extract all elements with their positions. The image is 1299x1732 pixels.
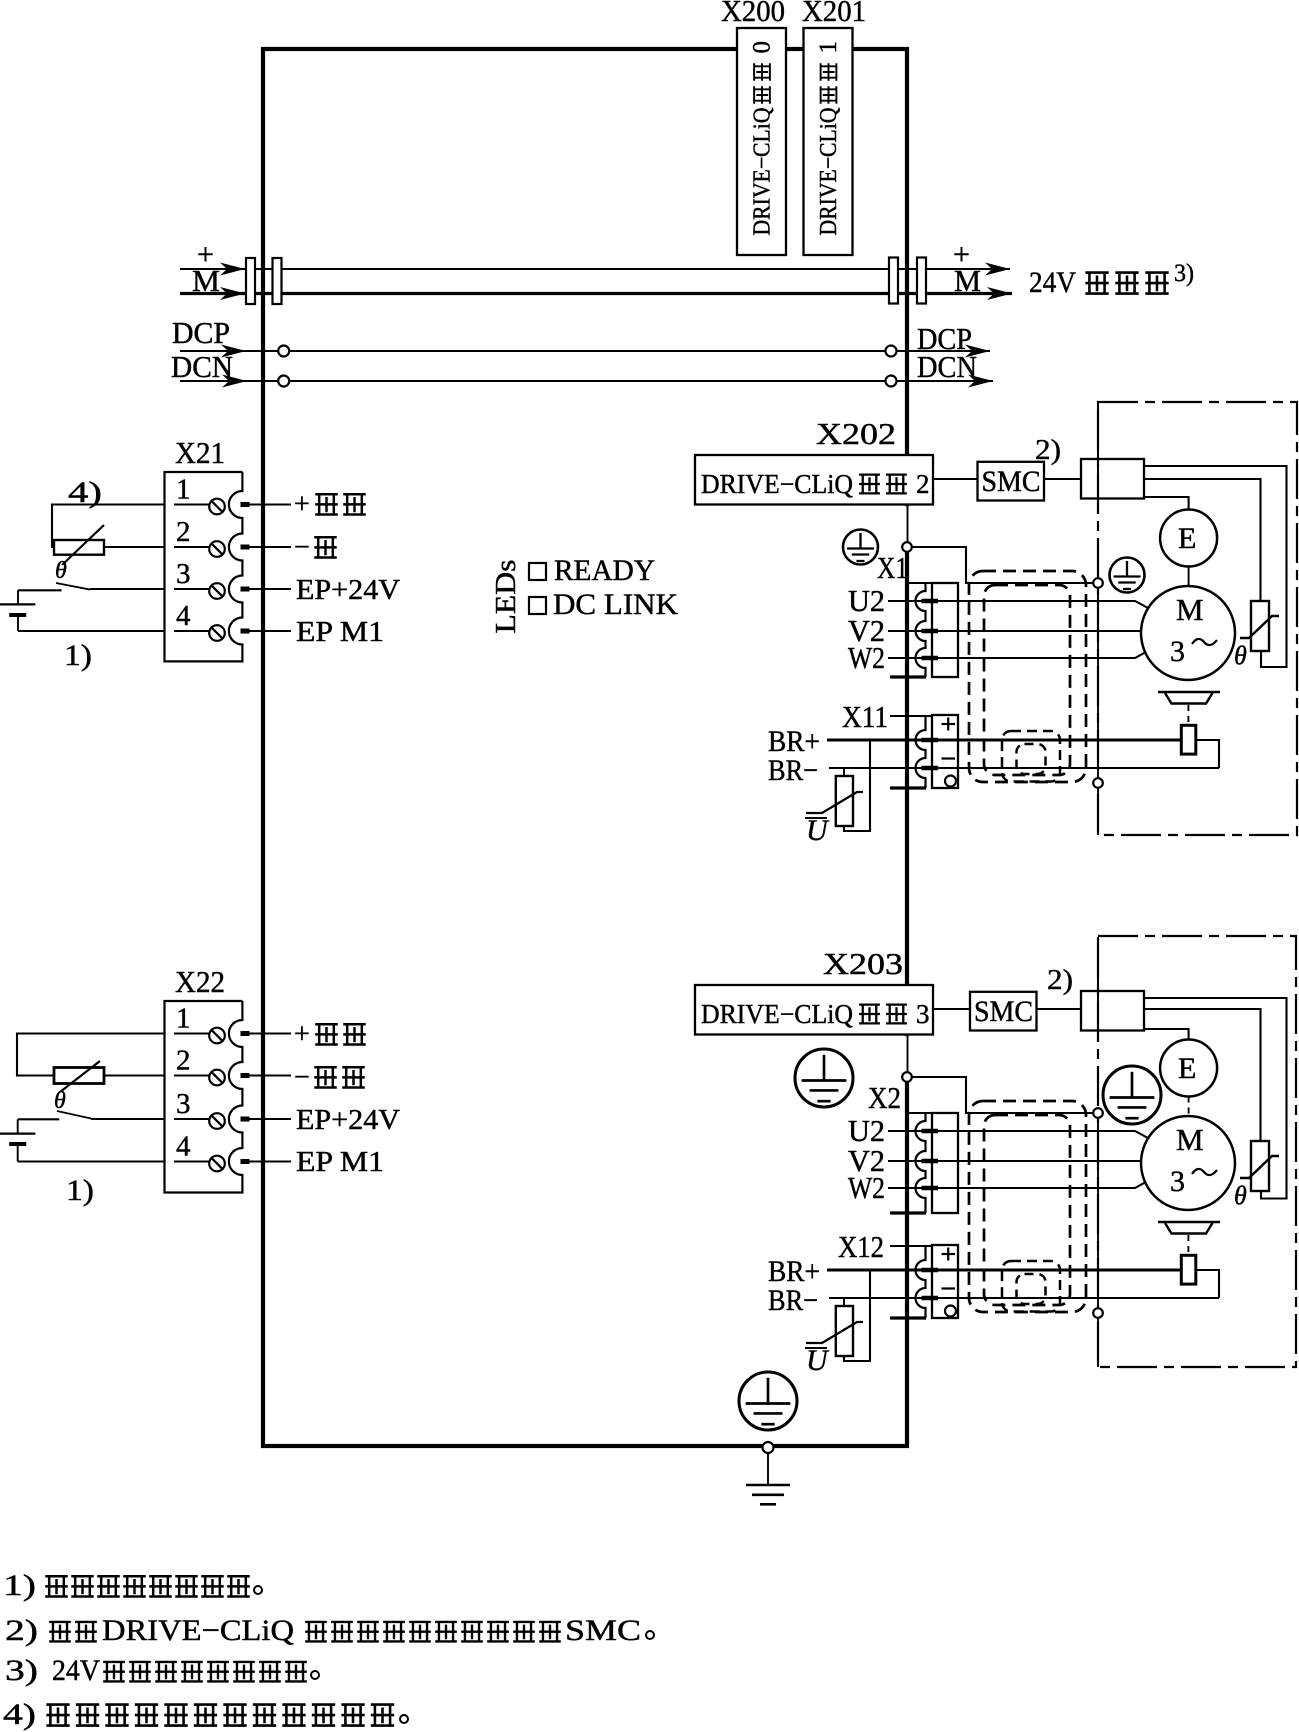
node shield top xyxy=(1093,578,1103,588)
node shield top xyxy=(1093,1108,1103,1118)
PE conductor to motor enclosure xyxy=(1097,1113,1099,1367)
svg-text:4: 4 xyxy=(176,600,191,632)
wire enclosure edge solid top portion xyxy=(1097,937,1099,1031)
svg-text:X22: X22 xyxy=(175,964,225,999)
wire terminal box loop to motor thermistor xyxy=(1144,998,1287,1199)
brake cable inner sheath (dashed) xyxy=(1017,744,1046,774)
DRIVE-CLiQ interface box X202 xyxy=(695,455,933,505)
svg-text:θ: θ xyxy=(1234,641,1247,670)
brake linkage (dashed) xyxy=(1187,705,1189,724)
link encoder to motor xyxy=(1188,567,1190,587)
motor terminal box xyxy=(1081,991,1144,1031)
svg-text:X1: X1 xyxy=(877,550,908,585)
motor M 3~ xyxy=(1141,1116,1235,1210)
svg-text:M: M xyxy=(1176,1122,1204,1157)
wire module edge to node xyxy=(902,1036,913,1076)
node DCP right xyxy=(886,346,897,357)
contact pin BR- xyxy=(922,1296,939,1301)
contact pin BR- xyxy=(922,766,939,771)
svg-text:EP M1: EP M1 xyxy=(296,1146,384,1178)
contact pin V2 xyxy=(922,629,939,634)
earth ground symbol xyxy=(767,1453,769,1485)
motor thermistor xyxy=(1251,601,1269,651)
svg-text:M: M xyxy=(954,263,981,298)
svg-text:4): 4) xyxy=(3,1698,36,1731)
brake connector X12 body xyxy=(890,1245,932,1247)
connector X21 xyxy=(165,472,243,661)
svg-text:3: 3 xyxy=(916,999,930,1029)
svg-text:θ: θ xyxy=(54,1088,66,1114)
svg-text:BR−: BR− xyxy=(768,754,818,787)
motor unit enclosure (dash-dot) xyxy=(1098,936,1296,1367)
wire phase W2 xyxy=(888,652,1146,658)
shield bond circle xyxy=(945,1306,956,1317)
brake cable shield (outer, dashed) xyxy=(1002,731,1060,782)
wire brake resistor return loop xyxy=(1196,740,1219,768)
polarity + mark xyxy=(942,1253,956,1255)
pin 4 of X21 xyxy=(174,630,210,632)
wire SMC to motor terminal box xyxy=(1044,478,1081,480)
wire interface to SMC xyxy=(933,1008,970,1010)
varistor branch wire xyxy=(844,1270,870,1361)
arrow 24V+ in xyxy=(220,263,245,276)
svg-text:3: 3 xyxy=(1170,1165,1185,1198)
motor terminal box xyxy=(1081,459,1144,499)
svg-text:DRIVE−CLiQ: DRIVE−CLiQ xyxy=(701,999,853,1029)
node on module edge xyxy=(902,1072,912,1082)
brake cable shield (outer, dashed) xyxy=(1002,1261,1060,1312)
wire DCP xyxy=(180,350,990,352)
battery 24V source X22 xyxy=(17,1119,19,1133)
brake cable inner sheath (dashed) xyxy=(1017,1274,1046,1304)
svg-text:X203: X203 xyxy=(823,946,903,981)
protective earth symbol (module PE) xyxy=(739,1372,797,1430)
svg-text:X2: X2 xyxy=(868,1080,901,1115)
polarity - mark xyxy=(942,1287,956,1289)
contact pin U2 xyxy=(922,599,939,604)
wire node to cable shield xyxy=(907,1077,1098,1113)
svg-text:READY: READY xyxy=(554,554,655,587)
svg-text:M: M xyxy=(1176,592,1204,627)
wire DCN xyxy=(180,380,993,382)
wire module edge to node xyxy=(902,506,913,546)
arrow DCN out xyxy=(968,375,993,388)
wire phase U2 xyxy=(888,601,1148,608)
PE conductor to motor enclosure xyxy=(1097,583,1099,835)
LED READY xyxy=(529,563,546,580)
wire brake resistor return loop xyxy=(1196,1270,1219,1298)
svg-text:1: 1 xyxy=(176,474,191,506)
brake coil xyxy=(1181,725,1196,754)
motor cable shield (outer, dashed) xyxy=(969,571,1086,782)
svg-text:4: 4 xyxy=(176,1131,191,1163)
svg-text:1: 1 xyxy=(176,1003,191,1035)
protective earth symbol (module side) xyxy=(795,1049,853,1107)
contact pin U2 xyxy=(922,1129,939,1134)
svg-text:3: 3 xyxy=(1170,635,1185,668)
brake coil xyxy=(1181,1255,1196,1284)
svg-text:E: E xyxy=(1178,1052,1196,1085)
wire 24V+ busbar xyxy=(180,268,1010,270)
svg-text:θ: θ xyxy=(55,558,67,584)
svg-text:2: 2 xyxy=(916,469,930,499)
svg-text:X11: X11 xyxy=(842,699,888,734)
node DCN left xyxy=(278,376,289,387)
varistor branch wire xyxy=(844,740,870,831)
encoder E xyxy=(1160,1040,1217,1097)
wire terminal box to encoder xyxy=(1144,497,1189,510)
node shield bottom xyxy=(1093,1308,1103,1318)
wire phase V2 xyxy=(888,1160,1141,1162)
motor cable inner sheath (dashed) xyxy=(984,585,1070,775)
pin 2 of X22 xyxy=(174,1075,210,1077)
wire X22 pin1 to thermistor loop xyxy=(17,1034,165,1076)
svg-text:SMC: SMC xyxy=(565,1614,641,1647)
svg-text:2: 2 xyxy=(176,516,191,548)
svg-text:X202: X202 xyxy=(816,416,896,451)
node module ground xyxy=(763,1442,774,1453)
wire node to cable shield xyxy=(907,547,1098,583)
node shield bottom xyxy=(1093,778,1103,788)
contact pin V2 xyxy=(922,1159,939,1164)
arrow 24V+ out xyxy=(985,263,1010,276)
svg-text:X200: X200 xyxy=(721,0,785,28)
DRIVE-CLiQ interface box X203 xyxy=(695,985,933,1035)
arrow M in xyxy=(220,287,245,300)
connector X22 xyxy=(165,1001,243,1193)
svg-text:DRIVE−CLiQ: DRIVE−CLiQ xyxy=(816,108,842,236)
varistor (overvoltage protection) U xyxy=(836,1306,853,1356)
contact pin W2 xyxy=(922,656,939,661)
wire BR- xyxy=(829,767,1219,769)
brake linkage (dashed) xyxy=(1187,1235,1189,1254)
wire battery to X21 pin4 xyxy=(18,630,165,632)
svg-text:X12: X12 xyxy=(838,1229,884,1264)
svg-text:EP+24V: EP+24V xyxy=(296,1104,400,1136)
svg-text:2): 2) xyxy=(1035,434,1061,466)
polarity - mark xyxy=(942,757,956,759)
shield bond circle xyxy=(945,776,956,787)
contact pin W2 xyxy=(922,1186,939,1191)
motor unit enclosure (dash-dot) xyxy=(1098,402,1297,835)
motor thermistor xyxy=(1251,1141,1269,1191)
thermistor (motor temperature sensor X22) xyxy=(54,1068,104,1084)
pin 4 of X22 xyxy=(174,1161,210,1163)
contact pin BR+ xyxy=(922,1268,939,1273)
brake symbol xyxy=(1158,1221,1220,1223)
svg-text:W2: W2 xyxy=(848,1170,885,1205)
wire BR- xyxy=(829,1297,1219,1299)
24V jumper connector right xyxy=(889,258,898,304)
svg-text:3): 3) xyxy=(5,1654,38,1687)
pin 3 of X21 xyxy=(174,588,210,590)
switch (EP enable contact) xyxy=(18,589,62,591)
LED DC LINK xyxy=(529,597,546,614)
protective earth symbol (module side) xyxy=(843,530,878,565)
motor M 3~ xyxy=(1141,586,1235,680)
svg-text:+: + xyxy=(294,1019,310,1050)
svg-text:SMC: SMC xyxy=(982,465,1041,498)
svg-text:4): 4) xyxy=(68,476,102,509)
wire thermistor to X21 pin2 xyxy=(104,546,165,548)
svg-text:W2: W2 xyxy=(848,640,885,675)
pin 3 of X22 xyxy=(174,1118,210,1120)
motor module outline xyxy=(263,49,907,1446)
svg-text:2): 2) xyxy=(1047,964,1073,996)
svg-text:X201: X201 xyxy=(802,0,866,28)
svg-text:BR−: BR− xyxy=(768,1284,818,1317)
encoder E xyxy=(1160,510,1217,567)
svg-text:1): 1) xyxy=(66,1174,94,1207)
svg-text:X21: X21 xyxy=(175,435,225,470)
svg-text:2: 2 xyxy=(176,1045,191,1077)
contact pin BR+ xyxy=(922,738,939,743)
pin 1 of X21 xyxy=(174,504,210,506)
svg-text:3: 3 xyxy=(176,558,191,590)
arrow M out xyxy=(987,287,1012,300)
24V jumper connector left xyxy=(246,258,255,304)
arrow DCN in xyxy=(222,375,247,388)
svg-text:24V: 24V xyxy=(1029,266,1076,299)
wire enclosure edge solid top portion xyxy=(1097,403,1099,499)
motor cable inner sheath (dashed) xyxy=(984,1115,1070,1305)
link encoder to motor xyxy=(1188,1097,1190,1117)
wire interface to SMC xyxy=(933,478,978,480)
svg-text:2): 2) xyxy=(5,1614,38,1647)
label LEDs (vertical) xyxy=(490,560,522,634)
svg-text:3: 3 xyxy=(176,1088,191,1120)
brake symbol xyxy=(1158,691,1220,693)
wire terminal box loop to motor thermistor xyxy=(1144,466,1287,667)
SMC box (axis1) xyxy=(978,462,1045,501)
svg-text:DRIVE−CLiQ: DRIVE−CLiQ xyxy=(750,108,776,236)
svg-text:EP+24V: EP+24V xyxy=(296,574,400,606)
wire SMC to motor terminal box xyxy=(1037,1008,1082,1010)
svg-text:E: E xyxy=(1178,522,1196,555)
battery 24V source xyxy=(17,590,19,604)
wire battery to X22 pin4 xyxy=(18,1160,165,1162)
wire thermistor to X22 pin2 xyxy=(104,1074,165,1076)
node on module edge xyxy=(902,542,912,552)
wire phase U2 xyxy=(888,1131,1148,1138)
SMC box (axis2) xyxy=(970,992,1037,1031)
svg-text:1): 1) xyxy=(64,639,92,672)
polarity + mark xyxy=(942,723,956,725)
protective earth symbol (motor side) xyxy=(1103,1066,1161,1124)
svg-text:DCN: DCN xyxy=(171,349,233,384)
svg-text:DCN: DCN xyxy=(917,349,977,384)
wire terminal box to encoder xyxy=(1144,1029,1189,1040)
wire phase W2 xyxy=(888,1182,1146,1188)
svg-text:EP M1: EP M1 xyxy=(296,616,384,648)
svg-text:24V: 24V xyxy=(52,1654,100,1687)
wire 24V M busbar xyxy=(180,292,1012,295)
arrow DCP out xyxy=(965,345,990,358)
svg-text:1): 1) xyxy=(3,1569,36,1602)
svg-text:θ: θ xyxy=(1234,1181,1247,1210)
node DCN right xyxy=(886,376,897,387)
motor cable shield (outer, dashed) xyxy=(969,1101,1086,1312)
svg-text:M: M xyxy=(192,263,220,298)
protective earth symbol (motor side) xyxy=(1110,558,1145,593)
svg-text:−: − xyxy=(294,532,310,563)
svg-text:SMC: SMC xyxy=(974,995,1033,1028)
brake connector X11 body xyxy=(890,715,932,717)
svg-text:+: + xyxy=(294,489,310,520)
svg-text:−: − xyxy=(294,1062,310,1093)
switch (EP enable contact X22) xyxy=(18,1118,59,1120)
svg-text:DC LINK: DC LINK xyxy=(553,588,678,621)
pin 1 of X22 xyxy=(174,1033,210,1035)
svg-text:DRIVE−CLiQ: DRIVE−CLiQ xyxy=(701,469,853,499)
DRIVE-CLiQ socket X200 xyxy=(737,28,786,255)
wire phase V2 xyxy=(888,630,1141,632)
power connector X1 body xyxy=(908,582,932,584)
node DCP left xyxy=(278,346,289,357)
svg-text:0: 0 xyxy=(749,41,776,54)
svg-text:LEDs: LEDs xyxy=(490,560,522,634)
pin 2 of X21 xyxy=(174,546,210,548)
power connector X2 body xyxy=(908,1112,932,1114)
varistor (overvoltage protection) U xyxy=(836,776,853,826)
svg-text:DRIVE−CLiQ: DRIVE−CLiQ xyxy=(102,1614,294,1647)
wire X21 pin1 to thermistor loop xyxy=(52,505,165,548)
DRIVE-CLiQ socket X201 xyxy=(804,28,853,255)
wire BR+ xyxy=(827,1269,1181,1272)
svg-text:1: 1 xyxy=(815,41,842,54)
svg-text:3): 3) xyxy=(1174,260,1194,287)
arrow DCP in xyxy=(221,345,246,358)
wire BR+ xyxy=(827,739,1181,742)
thermistor (motor temperature sensor, alternative) xyxy=(54,540,104,555)
